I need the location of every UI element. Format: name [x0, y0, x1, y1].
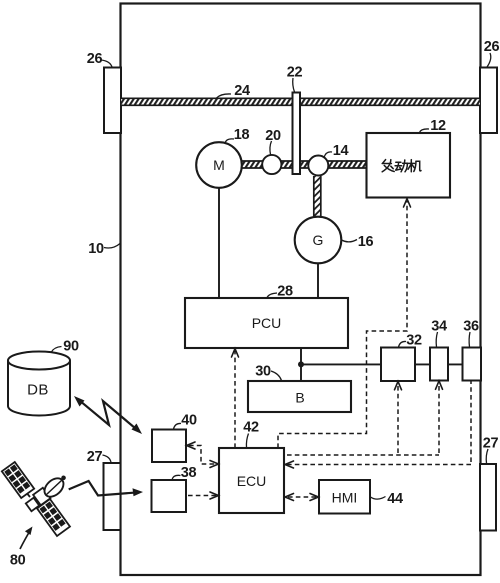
- svg-text:B: B: [295, 390, 304, 406]
- svg-text:G: G: [313, 232, 324, 248]
- svg-text:26: 26: [87, 51, 103, 67]
- svg-text:27: 27: [87, 449, 103, 465]
- svg-text:38: 38: [181, 465, 197, 481]
- svg-text:26: 26: [484, 39, 500, 55]
- svg-text:30: 30: [255, 364, 271, 380]
- svg-text:DB: DB: [27, 381, 49, 398]
- svg-text:27: 27: [483, 436, 499, 452]
- svg-text:42: 42: [243, 420, 259, 436]
- svg-text:16: 16: [358, 234, 374, 250]
- svg-text:32: 32: [406, 333, 422, 349]
- svg-text:ECU: ECU: [237, 473, 267, 489]
- svg-text:28: 28: [277, 284, 293, 300]
- svg-text:18: 18: [234, 127, 250, 143]
- svg-text:80: 80: [10, 553, 26, 569]
- svg-text:12: 12: [430, 118, 446, 134]
- svg-text:HMI: HMI: [332, 489, 358, 505]
- svg-text:24: 24: [234, 83, 250, 99]
- svg-text:90: 90: [63, 339, 79, 355]
- svg-text:14: 14: [333, 143, 349, 159]
- svg-text:34: 34: [431, 319, 447, 335]
- svg-text:22: 22: [287, 65, 303, 81]
- svg-text:20: 20: [265, 128, 281, 144]
- svg-text:44: 44: [387, 491, 403, 507]
- svg-text:PCU: PCU: [252, 315, 282, 331]
- svg-text:10: 10: [88, 241, 104, 257]
- svg-text:40: 40: [181, 413, 197, 429]
- svg-text:36: 36: [463, 319, 479, 335]
- svg-text:M: M: [213, 157, 225, 173]
